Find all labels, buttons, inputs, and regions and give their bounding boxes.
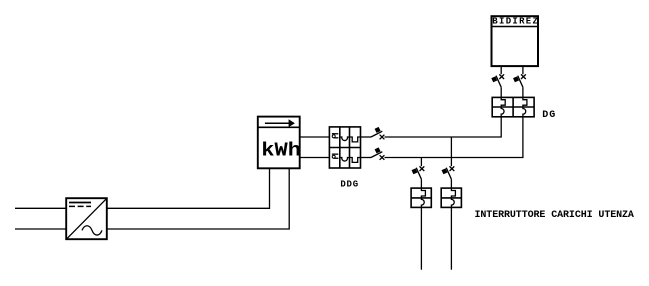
- wire: AC input bottom left: [15, 228, 66, 230]
- svg-text:DDG: DDG: [340, 180, 358, 190]
- wire: meter to DDG top: [300, 136, 330, 138]
- wire: load 1 tail: [420, 207, 422, 269]
- DDG pole 1 thermal + magnetic elements: [340, 137, 361, 142]
- energy meter kWh: [258, 117, 300, 169]
- breaker contact DG pole 2: [513, 74, 526, 87]
- breaker contact DG pole 1: [491, 74, 504, 87]
- label Id pole 2: [332, 154, 339, 159]
- MCB load 1 (magnetic + thermal): [411, 188, 431, 207]
- DDG pole 2 thermal + magnetic elements: [340, 158, 361, 163]
- wire: breaker to load box 1: [420, 179, 422, 188]
- wire: AC input top left: [15, 207, 66, 209]
- svg-text:BIDIREZ: BIDIREZ: [492, 17, 539, 27]
- breaker contact Q1 (pole 1): [371, 127, 384, 139]
- wire: load 2 tail: [450, 207, 452, 269]
- wire: bottom bus to DG right pole: [385, 117, 523, 158]
- wire: breaker to DG box right: [522, 87, 524, 97]
- wire: DDG pole1 to breaker: [361, 136, 372, 138]
- wire: load branch 2 drop: [450, 137, 452, 166]
- svg-text:kWh: kWh: [261, 140, 301, 162]
- wire: BIDIREZ to breaker left: [500, 66, 502, 74]
- wire: DDG pole2 to breaker: [361, 157, 372, 159]
- wire: meter to DDG bottom: [300, 157, 330, 159]
- wire: load branch 1 drop: [420, 158, 422, 167]
- svg-text:DG: DG: [542, 110, 556, 121]
- breaker contact load 1: [412, 166, 425, 179]
- MCB DG (2-pole magnetic + thermal): [492, 97, 534, 116]
- wire: breaker to DG box left: [500, 87, 502, 97]
- wire: BIDIREZ to breaker right: [522, 66, 524, 74]
- svg-text:INTERRUTTORE CARICHI UTENZA: INTERRUTTORE CARICHI UTENZA: [475, 210, 634, 221]
- breaker contact Q2 (pole 2): [371, 147, 384, 159]
- RCBO DDG (2-pole differential + thermal + magnetic): [329, 127, 360, 168]
- breaker contact load 2: [442, 166, 455, 179]
- wire: inverter to meter, top phase: [107, 168, 270, 208]
- inverter U1 (DC/AC converter): [66, 198, 107, 239]
- wire: top bus to DG left pole: [385, 117, 502, 137]
- bidirectional meter BIDIREZ: [492, 16, 539, 66]
- label Id pole 1: [332, 133, 339, 138]
- MCB load 2 (magnetic + thermal): [441, 188, 461, 207]
- wire: inverter to meter, bottom phase: [107, 168, 290, 229]
- wire: breaker to load box 2: [450, 179, 452, 188]
